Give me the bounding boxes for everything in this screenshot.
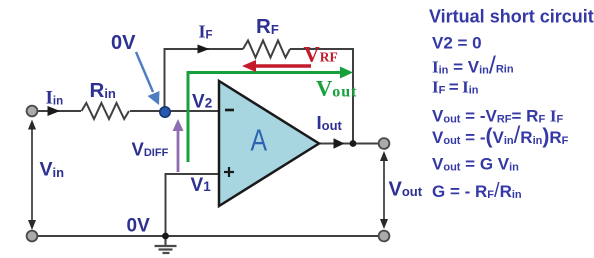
svg-text:Iin = Vin/Rin: Iin = Vin/Rin <box>432 52 514 80</box>
svg-text:IF: IF <box>199 22 213 42</box>
svg-text:Vout = -VRF= RF IF: Vout = -VRF= RF IF <box>432 107 564 126</box>
annotation: equations block <box>429 7 594 203</box>
wire: output wire from op-amp apex to right terminal <box>318 143 384 145</box>
green Vout feedback-path arrow <box>188 67 353 163</box>
svg-text:V2 = 0: V2 = 0 <box>432 34 482 53</box>
svg-text:V1: V1 <box>191 175 212 196</box>
blue pointer arrow from 0V label to node V2 <box>136 52 160 105</box>
svg-text:0V: 0V <box>111 32 136 54</box>
junction: output node <box>350 140 357 147</box>
svg-text:Iin: Iin <box>46 88 64 109</box>
svg-text:A: A <box>251 123 268 157</box>
wire: feedback riser from node V2 up to top rail <box>164 49 166 111</box>
terminal: input top <box>27 106 38 117</box>
svg-text:RF: RF <box>256 15 279 38</box>
svg-text:IF = Iin: IF = Iin <box>432 78 479 97</box>
red VRF arrow <box>242 60 311 72</box>
svg-text:G = - RF/Rin: G = - RF/Rin <box>432 180 522 202</box>
svg-text:VRF: VRF <box>304 42 338 67</box>
svg-text:Vin: Vin <box>40 159 65 181</box>
Vout measurement double arrow <box>380 151 388 229</box>
wire: feedback drop from top rail to output node <box>352 48 354 144</box>
svg-text:V2: V2 <box>192 92 212 113</box>
svg-text:Vout = -(Vin/Rin)RF: Vout = -(Vin/Rin)RF <box>432 122 569 149</box>
Vin measurement double arrow <box>28 120 36 231</box>
terminal: output top <box>379 138 390 149</box>
op-amp non-inverting pin mark <box>224 167 234 177</box>
purple VDIFF arrow <box>173 119 184 172</box>
wire: bottom 0V rail <box>32 235 384 237</box>
junction: ground node <box>162 233 169 240</box>
svg-text:Iout: Iout <box>317 112 343 133</box>
ground <box>155 236 177 253</box>
current arrow IF <box>198 45 210 54</box>
resistor RF <box>243 40 290 59</box>
node V2 (virtual ground, blue junction dot) <box>160 107 170 117</box>
svg-text:Vout = G Vin: Vout = G Vin <box>432 155 519 174</box>
svg-text:VDIFF: VDIFF <box>132 139 169 160</box>
wire: non-inverting input wire (V1) <box>166 174 220 236</box>
op-amp inverting pin mark <box>225 109 234 112</box>
terminal: input bottom <box>27 231 38 242</box>
svg-text:Virtual short circuit: Virtual short circuit <box>429 7 594 27</box>
current arrow Iin <box>48 106 61 116</box>
svg-text:Rin: Rin <box>90 79 116 102</box>
wire: main input wire (left terminal to op-amp inverting input) <box>32 110 219 112</box>
terminal: output bottom <box>379 231 390 242</box>
resistor Rin <box>81 102 130 120</box>
svg-text:0V: 0V <box>127 216 151 237</box>
svg-text:Vout: Vout <box>316 76 357 101</box>
svg-text:Vout: Vout <box>389 179 423 201</box>
current arrow Iout <box>334 138 345 148</box>
op-amp U1 (A) <box>219 81 319 206</box>
wire: top feedback rail <box>164 48 354 50</box>
